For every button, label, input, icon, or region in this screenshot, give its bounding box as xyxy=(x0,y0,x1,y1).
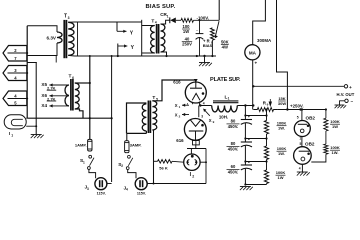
svg-text:450V.: 450V. xyxy=(228,169,239,174)
svg-text:1: 1 xyxy=(167,14,169,18)
svg-text:30W: 30W xyxy=(278,101,286,106)
svg-text:1: 1 xyxy=(11,133,13,137)
svg-text:3: 3 xyxy=(201,114,203,118)
svg-text:1W: 1W xyxy=(278,175,284,180)
svg-text:1W.: 1W. xyxy=(278,126,285,131)
svg-text:4: 4 xyxy=(299,167,301,171)
svg-text:56 K: 56 K xyxy=(159,165,168,170)
svg-text:1W.: 1W. xyxy=(332,150,339,155)
svg-text:115V.: 115V. xyxy=(97,192,106,196)
svg-text:BIAS: BIAS xyxy=(203,43,213,48)
svg-text:+: + xyxy=(255,61,258,66)
svg-text:450V.: 450V. xyxy=(228,146,239,151)
svg-text:616: 616 xyxy=(173,80,181,85)
svg-text:450V.: 450V. xyxy=(228,124,239,129)
svg-text:6.3V: 6.3V xyxy=(47,36,57,41)
svg-text:T: T xyxy=(151,18,154,24)
svg-text:1: 1 xyxy=(187,103,189,107)
svg-text:X: X xyxy=(209,118,212,123)
svg-text:4W: 4W xyxy=(222,45,228,50)
svg-text:300MA: 300MA xyxy=(257,38,272,43)
svg-text:1: 1 xyxy=(83,160,85,164)
svg-text:PLATE SUP.: PLATE SUP. xyxy=(210,77,241,83)
svg-text:BIAS SUP.: BIAS SUP. xyxy=(146,4,176,10)
svg-text:+250V.: +250V. xyxy=(290,104,304,109)
svg-text:OB2: OB2 xyxy=(306,115,316,120)
svg-text:-100V.: -100V. xyxy=(197,16,210,21)
svg-text:T: T xyxy=(69,74,72,80)
svg-text:2: 2 xyxy=(121,164,123,168)
svg-text:X: X xyxy=(175,112,178,117)
svg-text:T: T xyxy=(64,14,67,20)
svg-text:5: 5 xyxy=(297,115,299,119)
svg-text:3AMP.: 3AMP. xyxy=(130,143,142,148)
svg-text:MA: MA xyxy=(249,50,257,55)
svg-text:1W: 1W xyxy=(332,124,338,129)
svg-text:250V: 250V xyxy=(182,42,192,47)
svg-text:OB2: OB2 xyxy=(305,141,315,146)
svg-text:H.V. OUT: H.V. OUT xyxy=(337,92,355,97)
svg-text:5: 5 xyxy=(300,142,302,146)
svg-text:1AMP.: 1AMP. xyxy=(75,143,87,148)
svg-text:3: 3 xyxy=(87,187,89,191)
svg-text:1: 1 xyxy=(299,137,301,141)
svg-text:4: 4 xyxy=(126,188,128,192)
svg-text:1: 1 xyxy=(228,97,230,101)
svg-text:X: X xyxy=(175,103,178,108)
svg-text:X4: X4 xyxy=(41,103,47,108)
svg-text:1W.: 1W. xyxy=(278,151,285,156)
svg-text:1W: 1W xyxy=(183,29,189,34)
svg-text:3: 3 xyxy=(68,16,70,20)
svg-text:10H.: 10H. xyxy=(219,114,228,119)
svg-text:115V.: 115V. xyxy=(137,192,146,196)
svg-text:+: + xyxy=(349,86,352,91)
svg-text:2: 2 xyxy=(192,174,194,178)
svg-text:−: − xyxy=(351,99,354,104)
svg-text:616: 616 xyxy=(176,138,184,143)
